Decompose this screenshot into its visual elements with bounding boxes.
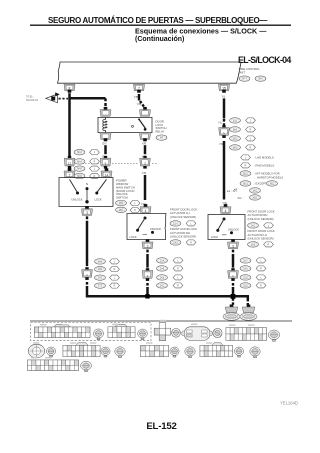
svg-text:12: 12 <box>68 161 72 165</box>
svg-text:: EXCEPT: : EXCEPT <box>254 182 267 186</box>
wire down from main switch <box>86 216 88 221</box>
wire W/R vertical <box>68 93 71 156</box>
oval M49 <box>74 173 85 179</box>
svg-text:UNIT: UNIT <box>239 70 246 74</box>
svg-text:3: 3 <box>147 244 149 248</box>
svg-text:N: N <box>86 182 88 186</box>
connector B75 round <box>268 330 279 341</box>
svg-text:3: 3 <box>232 244 234 248</box>
svg-text:15: 15 <box>222 87 226 91</box>
dashed drop unit pin7 to relay <box>138 94 140 101</box>
N mark <box>222 234 227 236</box>
svg-text:Esquema de conexiones — S/LOCK: Esquema de conexiones — S/LOCK — <box>135 27 267 36</box>
relay top pin 3 <box>140 107 151 116</box>
svg-text:D14: D14 <box>160 260 165 262</box>
connector D09 round <box>234 347 243 357</box>
svg-text:M44: M44 <box>98 261 103 263</box>
svg-text:D05: D05 <box>243 277 248 279</box>
inline connector on wire E <box>142 268 153 281</box>
relay coil <box>105 117 107 132</box>
svg-text:D08: D08 <box>251 244 256 246</box>
pin below RH actuator <box>228 239 239 248</box>
wire Y/R to RH actuator <box>223 141 226 200</box>
svg-text:SWITCH): SWITCH) <box>116 196 128 200</box>
svg-text:M48: M48 <box>77 169 82 171</box>
dashed wire to arrow <box>59 98 69 100</box>
svg-text:Y/L: Y/L <box>218 121 223 125</box>
hex L <box>246 136 256 141</box>
svg-text::: : <box>183 242 184 244</box>
svg-text:(Continuación): (Continuación) <box>135 36 184 43</box>
wire branch to relay <box>70 97 106 100</box>
connector id oval B64 <box>255 76 266 82</box>
relay bottom pin 2 <box>100 133 111 142</box>
N mark <box>143 233 148 235</box>
connector M49 round <box>138 329 148 340</box>
svg-text::: : <box>183 223 184 225</box>
svg-text:3: 3 <box>86 211 88 215</box>
wire Y/R <box>144 145 147 154</box>
inline connector B13 <box>219 125 230 138</box>
unlock arm <box>70 179 78 192</box>
hex L <box>246 118 256 123</box>
svg-text:M74: M74 <box>242 79 247 81</box>
connector id oval M74 <box>239 76 250 82</box>
svg-text:M52: M52 <box>270 183 275 185</box>
svg-text:M53: M53 <box>233 147 238 149</box>
connector M48 grid <box>108 324 135 337</box>
svg-text:(UNLOCK SENSOR): (UNLOCK SENSOR) <box>170 215 196 219</box>
svg-text:UNLOCK: UNLOCK <box>228 228 239 232</box>
svg-text:●1 : S/Y: ●1 : S/Y <box>227 189 237 193</box>
oval M53 <box>230 145 241 151</box>
inline connector on wire F <box>228 268 239 281</box>
header rule <box>30 25 291 26</box>
svg-text:4: 4 <box>225 209 227 213</box>
connector M9 cross <box>154 323 170 341</box>
svg-text:UNLOCK: UNLOCK <box>150 227 161 231</box>
svg-text::: : <box>261 225 262 227</box>
svg-text:UNLOCK: UNLOCK <box>71 197 82 201</box>
svg-text:D41: D41 <box>160 285 165 287</box>
svg-text:Y/L: Y/L <box>221 95 226 99</box>
hex L <box>90 166 100 171</box>
svg-text:M49: M49 <box>98 269 103 271</box>
pin below LH actuator <box>142 239 153 248</box>
svg-text:YEL164D: YEL164D <box>280 401 298 406</box>
oval M48 <box>74 166 85 172</box>
svg-text:D45: D45 <box>173 242 178 244</box>
oval D45 <box>170 240 181 246</box>
inline connector M9 on wire B <box>100 156 111 169</box>
connector M44 round <box>94 329 104 340</box>
relay id oval M9 <box>156 135 167 141</box>
connector M74 round <box>28 344 44 358</box>
svg-text:M53: M53 <box>253 197 258 199</box>
connector B20 round <box>81 361 92 371</box>
dashed group box <box>31 323 152 341</box>
svg-text:7: 7 <box>69 173 71 177</box>
drop to ground left <box>232 298 234 305</box>
connector D30 grid <box>63 343 100 357</box>
unlock contact <box>230 231 233 234</box>
main switch box <box>59 178 113 207</box>
svg-text::: : <box>261 244 262 246</box>
svg-text:Y/R: Y/R <box>142 171 147 175</box>
svg-text:LOCK: LOCK <box>94 197 102 201</box>
svg-text:,: , <box>252 79 253 81</box>
svg-text:D41: D41 <box>251 225 256 227</box>
junction dot F <box>231 294 236 299</box>
relay contact circle <box>132 125 134 127</box>
connector B19 grid <box>28 360 79 371</box>
svg-text:: RHD MODELS: : RHD MODELS <box>254 164 274 168</box>
svg-text:M44: M44 <box>77 161 82 163</box>
oval D41 <box>248 223 259 229</box>
hex R <box>90 159 100 164</box>
LH actuator box <box>127 214 166 240</box>
svg-text:M49: M49 <box>119 203 124 205</box>
connector M43 grid <box>35 324 91 337</box>
arrow to other page <box>46 94 58 103</box>
hex L <box>186 221 196 226</box>
svg-text:D70: D70 <box>98 286 103 288</box>
svg-text:D08: D08 <box>160 277 165 279</box>
svg-text:D14: D14 <box>173 223 178 225</box>
svg-text:8: 8 <box>69 87 71 91</box>
switch common <box>223 218 226 221</box>
svg-text:LOCK: LOCK <box>211 235 219 239</box>
oval M50 id <box>116 207 127 213</box>
dash above connector <box>223 119 225 126</box>
svg-text:HARDTOP MODELS: HARDTOP MODELS <box>257 175 283 179</box>
hex L at actuator LH <box>130 201 140 206</box>
hex R <box>246 145 256 150</box>
connector B06 circle <box>213 328 222 337</box>
lock arm <box>97 179 107 192</box>
pin 7 of main switch <box>64 168 75 177</box>
connector D45 round <box>185 347 195 358</box>
svg-text:(UNLOCK SENSOR): (UNLOCK SENSOR) <box>248 217 274 221</box>
inline connector M12 on wire A <box>64 156 75 169</box>
oval M53 legend <box>240 181 251 187</box>
svg-text:EL-S/LOCK-04: EL-S/LOCK-04 <box>238 55 291 65</box>
pin 15 of unit <box>219 84 230 93</box>
oval M49 id <box>116 200 127 206</box>
svg-text:EL-152: EL-152 <box>146 421 176 432</box>
oval M52 <box>230 136 241 142</box>
ground B75 left <box>223 305 240 321</box>
relay bottom pin 5 <box>140 133 151 142</box>
wire G/Y <box>104 145 107 154</box>
pin 7 of unit <box>134 84 145 93</box>
relay top pin 1 <box>100 107 111 116</box>
switch common line <box>86 188 88 202</box>
oval B13 <box>230 118 241 124</box>
dashed drop to relay pin <box>104 98 106 107</box>
hex L <box>90 150 100 155</box>
inline connector on wire D <box>82 267 93 280</box>
hex R at actuator LH <box>130 208 140 213</box>
relay switch arm <box>139 119 147 130</box>
separator line <box>30 320 292 323</box>
svg-text:LOCK: LOCK <box>129 235 137 239</box>
svg-text:SEGURO AUTOMÁTICO DE PUERTAS —: SEGURO AUTOMÁTICO DE PUERTAS — SUPERBLOQ… <box>48 16 267 25</box>
svg-text:M50: M50 <box>119 210 124 212</box>
connector D70 round <box>115 347 125 358</box>
hex R <box>264 242 274 247</box>
pin 4 of RH actuator <box>220 204 231 213</box>
connector D31 round <box>101 347 110 357</box>
svg-text:B06: B06 <box>233 129 238 131</box>
oval B06 <box>230 127 241 133</box>
wire to bus corner <box>86 282 88 287</box>
svg-text:(UNLOCK SENSOR): (UNLOCK SENSOR) <box>248 236 274 240</box>
ovals right of wire D <box>95 259 106 265</box>
hex R <box>90 173 100 178</box>
pin 8 of unit <box>64 84 75 93</box>
svg-text:4: 4 <box>145 209 147 213</box>
svg-text:M52: M52 <box>243 173 248 175</box>
oval M43 <box>74 149 85 155</box>
svg-text:Y/B: Y/B <box>134 95 139 99</box>
connector B13 double round <box>182 327 213 341</box>
svg-text:7: 7 <box>138 87 140 91</box>
svg-text:M52: M52 <box>253 190 258 192</box>
svg-text:RELAY: RELAY <box>156 130 165 134</box>
svg-text:: LHD MODELS: : LHD MODELS <box>254 156 274 160</box>
connector D41 round <box>250 347 260 358</box>
pin 14 of main switch <box>101 168 112 177</box>
inline connector on wire C <box>140 156 151 169</box>
hex R legend <box>241 163 251 168</box>
junction dot E <box>145 294 149 298</box>
svg-text:D46: D46 <box>243 268 248 270</box>
ovals right of wire E <box>157 258 168 264</box>
unlock contact <box>151 231 154 234</box>
svg-text:D45: D45 <box>160 268 165 270</box>
wire Y/R lower <box>144 175 147 200</box>
relay box <box>98 117 152 132</box>
svg-text:TO EL-: TO EL- <box>26 96 34 98</box>
connector B64 grid <box>226 328 267 341</box>
time control unit box <box>58 62 242 83</box>
svg-text:14: 14 <box>105 173 109 177</box>
hex R <box>246 127 256 132</box>
svg-text:B64: B64 <box>258 79 263 81</box>
svg-text:M53: M53 <box>243 183 248 185</box>
drop to ground right <box>247 296 250 299</box>
wire Y/L <box>223 98 226 118</box>
switch common <box>144 217 147 220</box>
svg-text:D30: D30 <box>98 278 103 280</box>
pin 4 of LH actuator <box>140 204 151 213</box>
connector M75 small <box>46 347 55 357</box>
hex R <box>186 240 196 245</box>
svg-text:D07: D07 <box>243 260 248 262</box>
oval M44 <box>74 159 85 165</box>
connector D15 round <box>170 347 179 357</box>
oval M52 legend <box>240 171 251 177</box>
hex L legend <box>241 155 251 160</box>
svg-text:S/L :: S/L : <box>238 196 244 200</box>
oval D14 <box>170 221 181 227</box>
svg-text:B13: B13 <box>233 120 238 122</box>
hex L <box>264 223 274 228</box>
connector D14 grid <box>141 345 169 356</box>
connector M12 circle <box>172 328 181 337</box>
svg-text:M52: M52 <box>233 138 238 140</box>
svg-text:(UNLOCK SENSOR): (UNLOCK SENSOR) <box>170 234 196 238</box>
svg-text:D55: D55 <box>243 285 248 287</box>
svg-text:Y/R: Y/R <box>142 142 147 146</box>
connector D08 grid <box>200 343 233 357</box>
svg-text:G/Y: G/Y <box>102 142 107 146</box>
ground B19 right <box>240 305 257 321</box>
svg-text:S/LOCK-03: S/LOCK-03 <box>26 100 38 102</box>
RH actuator box <box>208 215 245 240</box>
joint dashed line <box>76 162 100 164</box>
oval D08 <box>248 242 259 248</box>
svg-text:Y/B: Y/B <box>137 102 142 106</box>
pin 3 below main switch <box>82 206 93 215</box>
ovals right of wire F <box>240 258 251 264</box>
tiny connector ids <box>31 320 254 359</box>
svg-text:M43: M43 <box>77 152 82 154</box>
